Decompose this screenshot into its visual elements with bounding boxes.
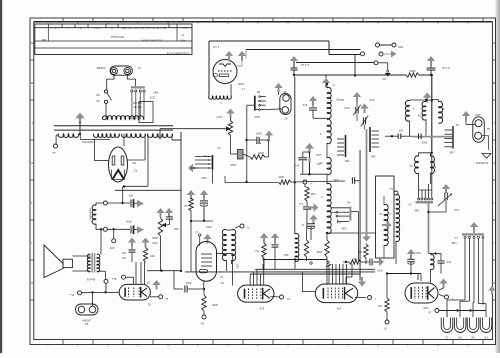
svg-text:Range: Range (336, 98, 344, 102)
svg-text:2V: 2V (408, 203, 411, 206)
svg-text:CALIBRATION: CALIBRATION (166, 52, 189, 56)
svg-text:2B: 2B (347, 201, 350, 204)
svg-text:LM2: LM2 (201, 176, 207, 180)
svg-text:300: 300 (352, 257, 357, 260)
svg-text:AH+: AH+ (381, 77, 386, 80)
svg-text:300K: 300K (278, 175, 284, 178)
svg-text:JF6: JF6 (121, 256, 126, 259)
svg-text:300K: 300K (212, 303, 218, 307)
svg-text:TON: TON (152, 241, 157, 244)
svg-text:LM5: LM5 (414, 209, 419, 212)
svg-text:1 4 D: 1 4 D (213, 45, 220, 49)
svg-text:100K: 100K (333, 178, 339, 181)
svg-text:2V6: 2V6 (259, 307, 264, 310)
svg-text:JF02: JF02 (126, 220, 132, 224)
svg-text:2V2: 2V2 (302, 103, 307, 106)
svg-text:LM2: LM2 (316, 153, 321, 156)
svg-text:9O9: 9O9 (423, 306, 428, 309)
svg-text:excitation: excitation (89, 209, 93, 221)
svg-text:320: 320 (357, 250, 362, 253)
svg-text:P1: P1 (133, 169, 137, 173)
svg-text:B9: B9 (132, 161, 136, 165)
svg-text:JF1'0: JF1'0 (376, 269, 382, 272)
svg-text:C51: C51 (316, 162, 321, 164)
svg-text:LM2: LM2 (451, 241, 456, 244)
svg-text:HEY: HEY (153, 91, 158, 94)
svg-text:H: H (493, 281, 495, 285)
svg-text:500K: 500K (421, 141, 427, 144)
svg-text:ANTENNA: ANTENNA (476, 161, 489, 165)
svg-text:CIA5: CIA5 (149, 96, 155, 99)
svg-text:300K: 300K (409, 69, 416, 73)
svg-text:JF62: JF62 (186, 281, 192, 284)
svg-text:JF6'0: JF6'0 (414, 251, 420, 254)
svg-text:CF: CF (146, 281, 150, 284)
svg-text:LM5: LM5 (449, 151, 454, 154)
svg-text:B+: B+ (200, 322, 204, 325)
svg-text:Print: Print (94, 26, 99, 29)
svg-text:B++: B++ (69, 293, 74, 296)
svg-text:SP: SP (96, 93, 100, 97)
svg-text:PM2M5: PM2M5 (96, 66, 105, 69)
svg-text:Document Name: Document Name (141, 39, 162, 43)
svg-text:JF6: JF6 (128, 194, 133, 198)
svg-text:2X5WH: 2X5WH (82, 319, 91, 322)
svg-text:MB: MB (42, 38, 46, 42)
svg-text:300K: 300K (258, 151, 264, 155)
svg-text:1K: 1K (184, 204, 187, 207)
svg-text:100: 100 (121, 251, 126, 254)
svg-text:2A: 2A (283, 90, 286, 93)
svg-text:CVO: CVO (344, 106, 349, 109)
svg-text:LM5: LM5 (341, 227, 346, 230)
svg-text:K: K (493, 161, 495, 165)
svg-text:400K: 400K (152, 236, 158, 239)
svg-text:15K: 15K (377, 304, 382, 307)
svg-text:Den: Den (182, 26, 187, 29)
svg-text:4H6: 4H6 (180, 39, 185, 43)
svg-text:400K: 400K (316, 250, 322, 253)
svg-text:5000: 5000 (255, 132, 261, 136)
svg-text:B++: B++ (111, 277, 116, 280)
svg-text:Ae: Ae (52, 151, 56, 155)
svg-text:5M1: 5M1 (344, 159, 349, 162)
svg-text:TT: TT (181, 33, 185, 37)
svg-text:LV: LV (454, 236, 457, 239)
svg-text:1AM: 1AM (475, 113, 480, 116)
svg-text:LM6: LM6 (254, 115, 260, 119)
svg-text:1u+: 1u+ (388, 187, 393, 190)
svg-text:S6: S6 (96, 99, 100, 103)
svg-text:1'O: 1'O (299, 202, 303, 205)
svg-text:M61: M61 (173, 227, 178, 230)
svg-text:1AO: 1AO (454, 208, 459, 211)
svg-text:JF62: JF62 (206, 225, 212, 228)
svg-text:Cv: Cv (217, 146, 221, 150)
svg-text:M26: M26 (310, 192, 315, 195)
svg-text:20pF: 20pF (230, 163, 236, 166)
svg-text:303 Model: 303 Model (110, 35, 124, 39)
svg-text:5M1: 5M1 (370, 155, 375, 158)
svg-text:BlueC6: BlueC6 (86, 278, 95, 281)
svg-text:Ext: Ext (84, 322, 88, 325)
svg-text:100K: 100K (236, 263, 238, 269)
svg-text:P1: P1 (220, 281, 224, 285)
svg-text:K: K (31, 161, 33, 165)
svg-text:N: N (493, 41, 495, 45)
svg-text:1S2: 1S2 (398, 129, 403, 132)
svg-text:H: H (31, 281, 33, 285)
svg-text:JF'0: JF'0 (446, 260, 451, 263)
svg-text:80+: 80+ (254, 249, 259, 252)
svg-text:Date: Wednesday, November 30,: Date: Wednesday, November 30, 2011 (121, 26, 166, 30)
svg-text:(5): (5) (409, 164, 412, 167)
svg-text:B3B: B3B (238, 82, 243, 86)
svg-text:60H: 60H (150, 254, 155, 257)
svg-text:1C: 1C (220, 275, 223, 279)
svg-text:4HF: 4HF (109, 246, 114, 249)
svg-text:JV6: JV6 (336, 307, 341, 310)
svg-text:0.1 uF: 0.1 uF (442, 66, 450, 70)
svg-text:N: N (31, 41, 33, 45)
svg-text:5O: 5O (484, 336, 487, 339)
svg-text:5EO: 5EO (283, 253, 288, 256)
svg-text:PCT: PCT (216, 115, 222, 119)
svg-text:HARPCHS: HARPCHS (82, 140, 94, 143)
svg-text:250 110: 250 110 (133, 105, 142, 108)
svg-text:(7): (7) (388, 212, 391, 215)
svg-text:P16: P16 (398, 45, 403, 49)
svg-text:0.1 uF: 0.1 uF (301, 63, 309, 67)
svg-text:C1O: C1O (369, 98, 374, 101)
